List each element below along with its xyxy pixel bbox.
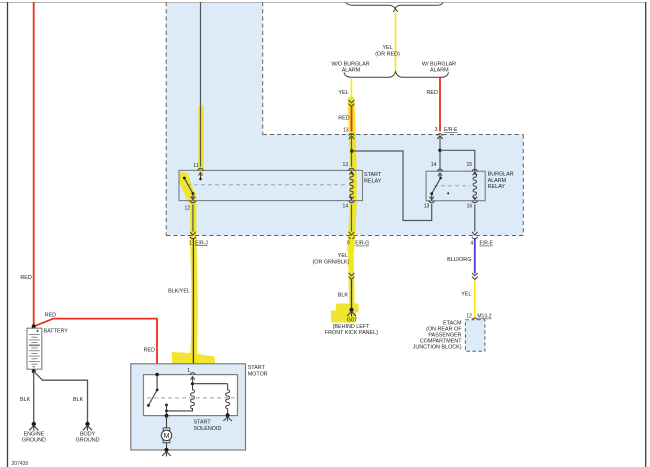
svg-text:BLK/YEL: BLK/YEL bbox=[168, 289, 190, 295]
wire YEL to ETACM bbox=[474, 280, 476, 317]
svg-text:JUNCTION BLOCK): JUNCTION BLOCK) bbox=[413, 345, 462, 351]
highlight over pin12 wire down to E/R-J bbox=[190, 195, 196, 247]
pin 11 cap bbox=[198, 168, 204, 170]
connector entry pin 3 E/R-E bbox=[437, 134, 443, 139]
connector on left branch bbox=[349, 100, 355, 106]
svg-text:ALARM: ALARM bbox=[342, 67, 361, 73]
svg-text:4: 4 bbox=[470, 241, 473, 247]
battery plus mark bbox=[36, 330, 38, 332]
svg-text:(OR RED): (OR RED) bbox=[375, 52, 400, 58]
svg-text:YEL: YEL bbox=[338, 253, 348, 259]
svg-text:16: 16 bbox=[467, 203, 473, 209]
battery bbox=[27, 328, 42, 369]
svg-text:YEL: YEL bbox=[461, 292, 471, 298]
svg-text:G07: G07 bbox=[347, 318, 357, 324]
highlight over pin11 wire bbox=[198, 108, 204, 172]
highlight over BLK/YEL wire bbox=[193, 247, 194, 352]
svg-text:GROUND: GROUND bbox=[76, 438, 100, 444]
wire RED left branch bbox=[351, 107, 353, 132]
svg-text:START: START bbox=[364, 172, 382, 178]
svg-text:E/R-E: E/R-E bbox=[480, 241, 494, 247]
wire pin12 down to E/R-J bbox=[192, 205, 194, 232]
wire YEL left branch bbox=[351, 78, 353, 101]
start solenoid inner box bbox=[144, 375, 238, 416]
arrow under top brace bbox=[393, 9, 398, 12]
svg-text:12: 12 bbox=[184, 206, 190, 212]
page border left bbox=[7, 2, 9, 467]
svg-text:3: 3 bbox=[435, 127, 438, 133]
wire BLK to G07 bbox=[351, 280, 353, 308]
svg-text:13: 13 bbox=[424, 203, 430, 209]
burglar relay internal dashed link bbox=[434, 185, 470, 187]
svg-text:FRONT KICK PANEL): FRONT KICK PANEL) bbox=[325, 330, 378, 336]
highlight wedge over start relay switch bbox=[180, 173, 197, 205]
exit connector E/R-E lower bbox=[472, 232, 478, 239]
svg-text:(OR GRN/BLK): (OR GRN/BLK) bbox=[312, 260, 349, 266]
motor ground bbox=[164, 448, 168, 452]
svg-text:RELAY: RELAY bbox=[364, 179, 382, 185]
wire contact to coil1 bbox=[167, 408, 193, 411]
burglar relay coil bbox=[473, 171, 477, 200]
brace splice top bbox=[346, 3, 443, 9]
wire junction to pin 15 bbox=[440, 150, 475, 171]
pin 14 arrow and contact bbox=[438, 173, 442, 177]
svg-text:(BEHIND LEFT: (BEHIND LEFT bbox=[333, 324, 371, 330]
pin 14 cap bbox=[349, 201, 355, 203]
svg-text:BLK: BLK bbox=[20, 397, 31, 403]
node battery positive bbox=[32, 324, 36, 328]
pin 16 cap bbox=[472, 201, 478, 203]
svg-text:BURGLAR: BURGLAR bbox=[488, 172, 514, 178]
svg-text:11: 11 bbox=[193, 163, 198, 169]
pin 1 arrow bbox=[191, 377, 195, 384]
brace splice lower bbox=[344, 72, 449, 78]
svg-text:13: 13 bbox=[343, 128, 349, 134]
pin 13 cap bbox=[349, 168, 355, 170]
svg-text:START: START bbox=[248, 365, 266, 371]
solenoid internal dashed link bbox=[147, 397, 236, 399]
connector entry pin 13 bbox=[349, 134, 355, 139]
wire BLK/YEL to start motor bbox=[192, 238, 194, 371]
start relay internal dashed link bbox=[187, 184, 348, 186]
exit connector E/R-J bbox=[190, 232, 196, 239]
burglar alarm relay box bbox=[426, 171, 485, 201]
node junction to burglar relay bbox=[350, 149, 353, 152]
svg-text:SOLENOID: SOLENOID bbox=[194, 426, 222, 432]
motor M1 bbox=[163, 428, 170, 431]
solenoid coil 1 bbox=[191, 384, 195, 411]
engine compartment shaded region fill bbox=[166, 2, 523, 236]
page border right bbox=[645, 2, 647, 467]
burglar relay switch blade bbox=[432, 178, 441, 194]
svg-text:15: 15 bbox=[466, 162, 472, 168]
exit connector E/R-G bbox=[349, 232, 355, 239]
connector on ground wire bbox=[349, 273, 355, 279]
body ground symbol bbox=[85, 422, 89, 426]
svg-text:MOTOR: MOTOR bbox=[248, 371, 268, 377]
svg-text:12: 12 bbox=[466, 314, 472, 320]
wire BLU/ORG bbox=[474, 238, 476, 274]
svg-text:RED: RED bbox=[45, 313, 56, 319]
wire battery main feed red bbox=[33, 2, 35, 326]
svg-text:BLU/ORG: BLU/ORG bbox=[447, 257, 471, 263]
connector on ETACM wire bbox=[472, 273, 478, 279]
start relay switch blade bbox=[184, 178, 193, 194]
svg-text:RED: RED bbox=[338, 115, 349, 121]
pin arrowheads burglar relay bbox=[429, 172, 477, 199]
svg-text:E/R-E: E/R-E bbox=[444, 127, 458, 133]
wire RED right branch bbox=[439, 78, 441, 132]
wire red to start motor bbox=[34, 319, 157, 374]
pin 1 cap at solenoid bbox=[190, 373, 196, 375]
svg-text:13: 13 bbox=[342, 162, 348, 168]
highlight blob at start motor bbox=[172, 352, 217, 373]
battery minus mark bbox=[33, 366, 36, 368]
highlight blob at G07 ground bbox=[331, 304, 359, 323]
page border top bbox=[0, 2, 646, 4]
node solenoid to motor bbox=[165, 414, 169, 418]
highlight over start motor pin 1 bbox=[190, 352, 197, 372]
wire branch to burglar alarm relay bbox=[352, 151, 432, 221]
wire start relay pin14 down to E/R-G bbox=[351, 205, 353, 232]
wire YEL (OR RED) top bbox=[395, 13, 397, 73]
solenoid switch bbox=[156, 375, 158, 390]
solenoid internal ground bbox=[226, 413, 230, 417]
svg-text:RELAY: RELAY bbox=[488, 184, 506, 190]
wire battery to body ground bbox=[34, 371, 88, 422]
start relay box bbox=[179, 170, 363, 200]
svg-text:GROUND: GROUND bbox=[22, 438, 46, 444]
svg-text:BATTERY: BATTERY bbox=[44, 329, 69, 335]
svg-text:E/R-G: E/R-G bbox=[355, 241, 369, 247]
svg-text:E/R-J: E/R-J bbox=[195, 240, 208, 246]
svg-text:START: START bbox=[194, 420, 212, 426]
svg-text:YEL: YEL bbox=[382, 45, 392, 51]
svg-text:YEL: YEL bbox=[338, 90, 348, 96]
start motor outer box bbox=[131, 364, 246, 450]
engine ground symbol bbox=[32, 422, 36, 426]
wire motor to ground bbox=[166, 443, 168, 450]
highlighter marks layer bbox=[193, 100, 353, 372]
wire pin3 down to burglar junction bbox=[439, 137, 441, 171]
wire to coil 2 bbox=[193, 383, 228, 385]
ground G07 bbox=[349, 308, 353, 312]
svg-text:ALARM: ALARM bbox=[488, 178, 507, 184]
pin 12 cap bbox=[190, 201, 196, 203]
node coil top junction bbox=[191, 382, 194, 385]
highlight over center column upper bbox=[351, 100, 353, 250]
wire to motor bbox=[166, 416, 168, 429]
svg-text:RED: RED bbox=[20, 275, 31, 281]
highlight over YEL wire to G07 bbox=[351, 250, 352, 304]
svg-text:M13-2: M13-2 bbox=[477, 314, 491, 320]
wire YEL (OR GRN/BLK) bbox=[351, 238, 353, 274]
solenoid coil 2 bbox=[226, 384, 230, 415]
wire battery feed from top (to pin 11) bbox=[200, 2, 202, 167]
svg-text:BLK: BLK bbox=[338, 293, 349, 299]
pin arrowheads start relay bbox=[191, 172, 354, 200]
svg-text:14: 14 bbox=[342, 204, 348, 210]
pin 13 cap bbox=[429, 201, 435, 203]
svg-text:1: 1 bbox=[189, 240, 192, 246]
svg-text:ALARM: ALARM bbox=[430, 67, 449, 73]
engine compartment dashed border bbox=[166, 2, 523, 236]
svg-text:207439: 207439 bbox=[12, 461, 29, 467]
node burglar feed junction bbox=[438, 149, 441, 152]
svg-text:M: M bbox=[164, 433, 170, 440]
pin 15 cap bbox=[472, 169, 478, 171]
start relay coil bbox=[350, 170, 353, 200]
svg-text:1: 1 bbox=[187, 368, 190, 374]
pin 11 arrow and contact bbox=[198, 173, 202, 179]
svg-text:RED: RED bbox=[427, 90, 438, 96]
svg-text:RED: RED bbox=[144, 348, 155, 354]
node red feed at solenoid bbox=[155, 373, 159, 377]
svg-text:9: 9 bbox=[347, 241, 350, 247]
wire battery to engine ground bbox=[33, 371, 35, 422]
solenoid switch contact chain bbox=[165, 404, 168, 407]
node battery negative bbox=[32, 369, 36, 373]
pin 14 cap bbox=[437, 169, 443, 171]
pin 12 cap at ETACM bbox=[472, 318, 478, 320]
svg-text:BLK: BLK bbox=[73, 397, 84, 403]
wire into start relay pin 13 bbox=[351, 137, 353, 167]
wire pin16 down to E/R-E bbox=[474, 205, 476, 232]
ETACM box bbox=[465, 320, 485, 352]
svg-text:14: 14 bbox=[431, 162, 437, 168]
